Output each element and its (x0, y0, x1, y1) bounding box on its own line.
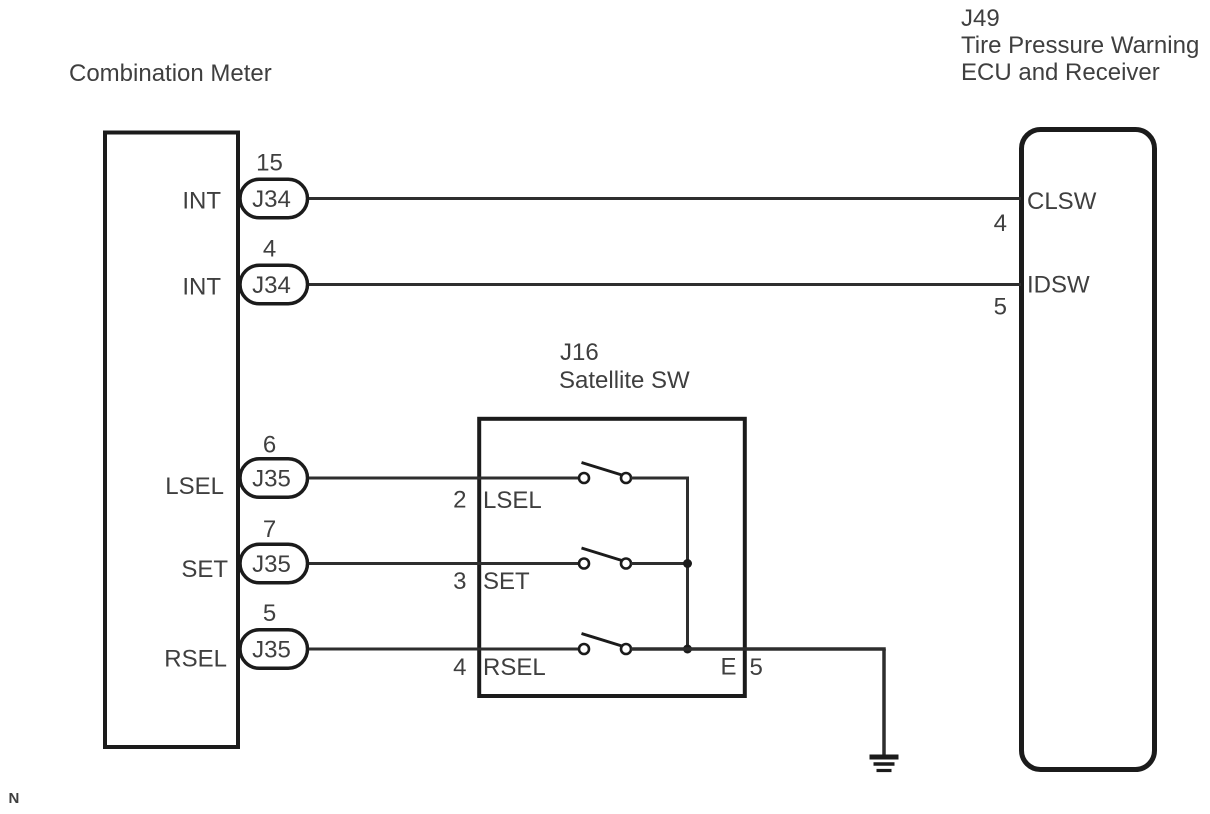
svg-text:Satellite SW: Satellite SW (559, 367, 690, 394)
label pin 4 RSEL inside satellite box (453, 654, 546, 681)
svg-text:INT: INT (182, 274, 221, 301)
svg-text:RSEL: RSEL (164, 646, 227, 673)
svg-text:J35: J35 (252, 551, 291, 578)
wire from SW2 to common node (631, 562, 689, 565)
svg-text:3: 3 (453, 568, 466, 595)
svg-text:5: 5 (994, 294, 1007, 321)
svg-text:J49: J49 (961, 5, 1000, 32)
junction node at SET row (683, 559, 692, 568)
label pin 3 SET inside satellite box (453, 568, 530, 595)
svg-text:6: 6 (263, 432, 276, 459)
component J16 Satellite SW box (479, 419, 745, 696)
svg-text:J34: J34 (252, 186, 291, 213)
svg-text:IDSW: IDSW (1027, 272, 1090, 299)
svg-text:J34: J34 (252, 272, 291, 299)
wire vertical drop to ground (882, 649, 886, 756)
label J16 Satellite SW (559, 339, 690, 394)
svg-text:15: 15 (256, 150, 283, 177)
svg-text:Tire Pressure Warning: Tire Pressure Warning (961, 32, 1199, 59)
label IDSW pin 5 (994, 272, 1090, 321)
svg-text:INT: INT (182, 188, 221, 215)
svg-text:CLSW: CLSW (1027, 188, 1097, 215)
svg-text:LSEL: LSEL (483, 487, 542, 514)
svg-text:SET: SET (181, 556, 228, 583)
svg-text:4: 4 (263, 236, 276, 263)
wire from SW1 to common node (631, 477, 689, 480)
switch SW3 RSEL (579, 634, 631, 655)
svg-text:5: 5 (750, 654, 763, 681)
connector J34 pin 4 (240, 236, 308, 304)
svg-text:RSEL: RSEL (483, 654, 546, 681)
svg-text:4: 4 (453, 654, 466, 681)
svg-text:5: 5 (263, 600, 276, 627)
svg-text:2: 2 (453, 487, 466, 514)
connector J35 pin 6 (240, 432, 308, 498)
wire SET row (306, 562, 580, 565)
wire INT row 1 to CLSW (306, 197, 1021, 200)
junction node at RSEL row (683, 645, 692, 654)
wire INT row 2 to IDSW (306, 283, 1021, 286)
svg-text:ECU and Receiver: ECU and Receiver (961, 59, 1160, 86)
wire common vertical bus (686, 478, 689, 649)
svg-text:J35: J35 (252, 637, 291, 664)
wire LSEL row (306, 477, 580, 480)
connector J34 pin 15 (240, 150, 308, 218)
connector J35 pin 7 (240, 516, 308, 583)
svg-text:7: 7 (263, 516, 276, 543)
svg-text:Combination Meter: Combination Meter (69, 60, 272, 87)
svg-text:SET: SET (483, 568, 530, 595)
label pin E 5 inside satellite box (721, 654, 763, 682)
label pin 2 LSEL inside satellite box (453, 487, 542, 515)
connector J35 pin 5 (240, 600, 308, 668)
label J49 Tire Pressure Warning ECU and Receiver (961, 5, 1199, 86)
svg-text:E: E (721, 654, 737, 681)
wire RSEL row (306, 648, 580, 651)
svg-text:4: 4 (994, 210, 1007, 237)
component J49 ECU box (1022, 130, 1155, 770)
wire RSEL row to ground corner (631, 647, 886, 651)
component Combination Meter box (105, 133, 238, 748)
label CLSW pin 4 (994, 188, 1097, 237)
svg-text:J35: J35 (252, 466, 291, 493)
svg-text:N: N (9, 790, 20, 807)
ground symbol (870, 757, 899, 771)
switch SW2 SET (579, 548, 631, 569)
switch SW1 LSEL (579, 463, 631, 484)
svg-text:J16: J16 (560, 339, 599, 366)
svg-text:LSEL: LSEL (165, 473, 224, 500)
